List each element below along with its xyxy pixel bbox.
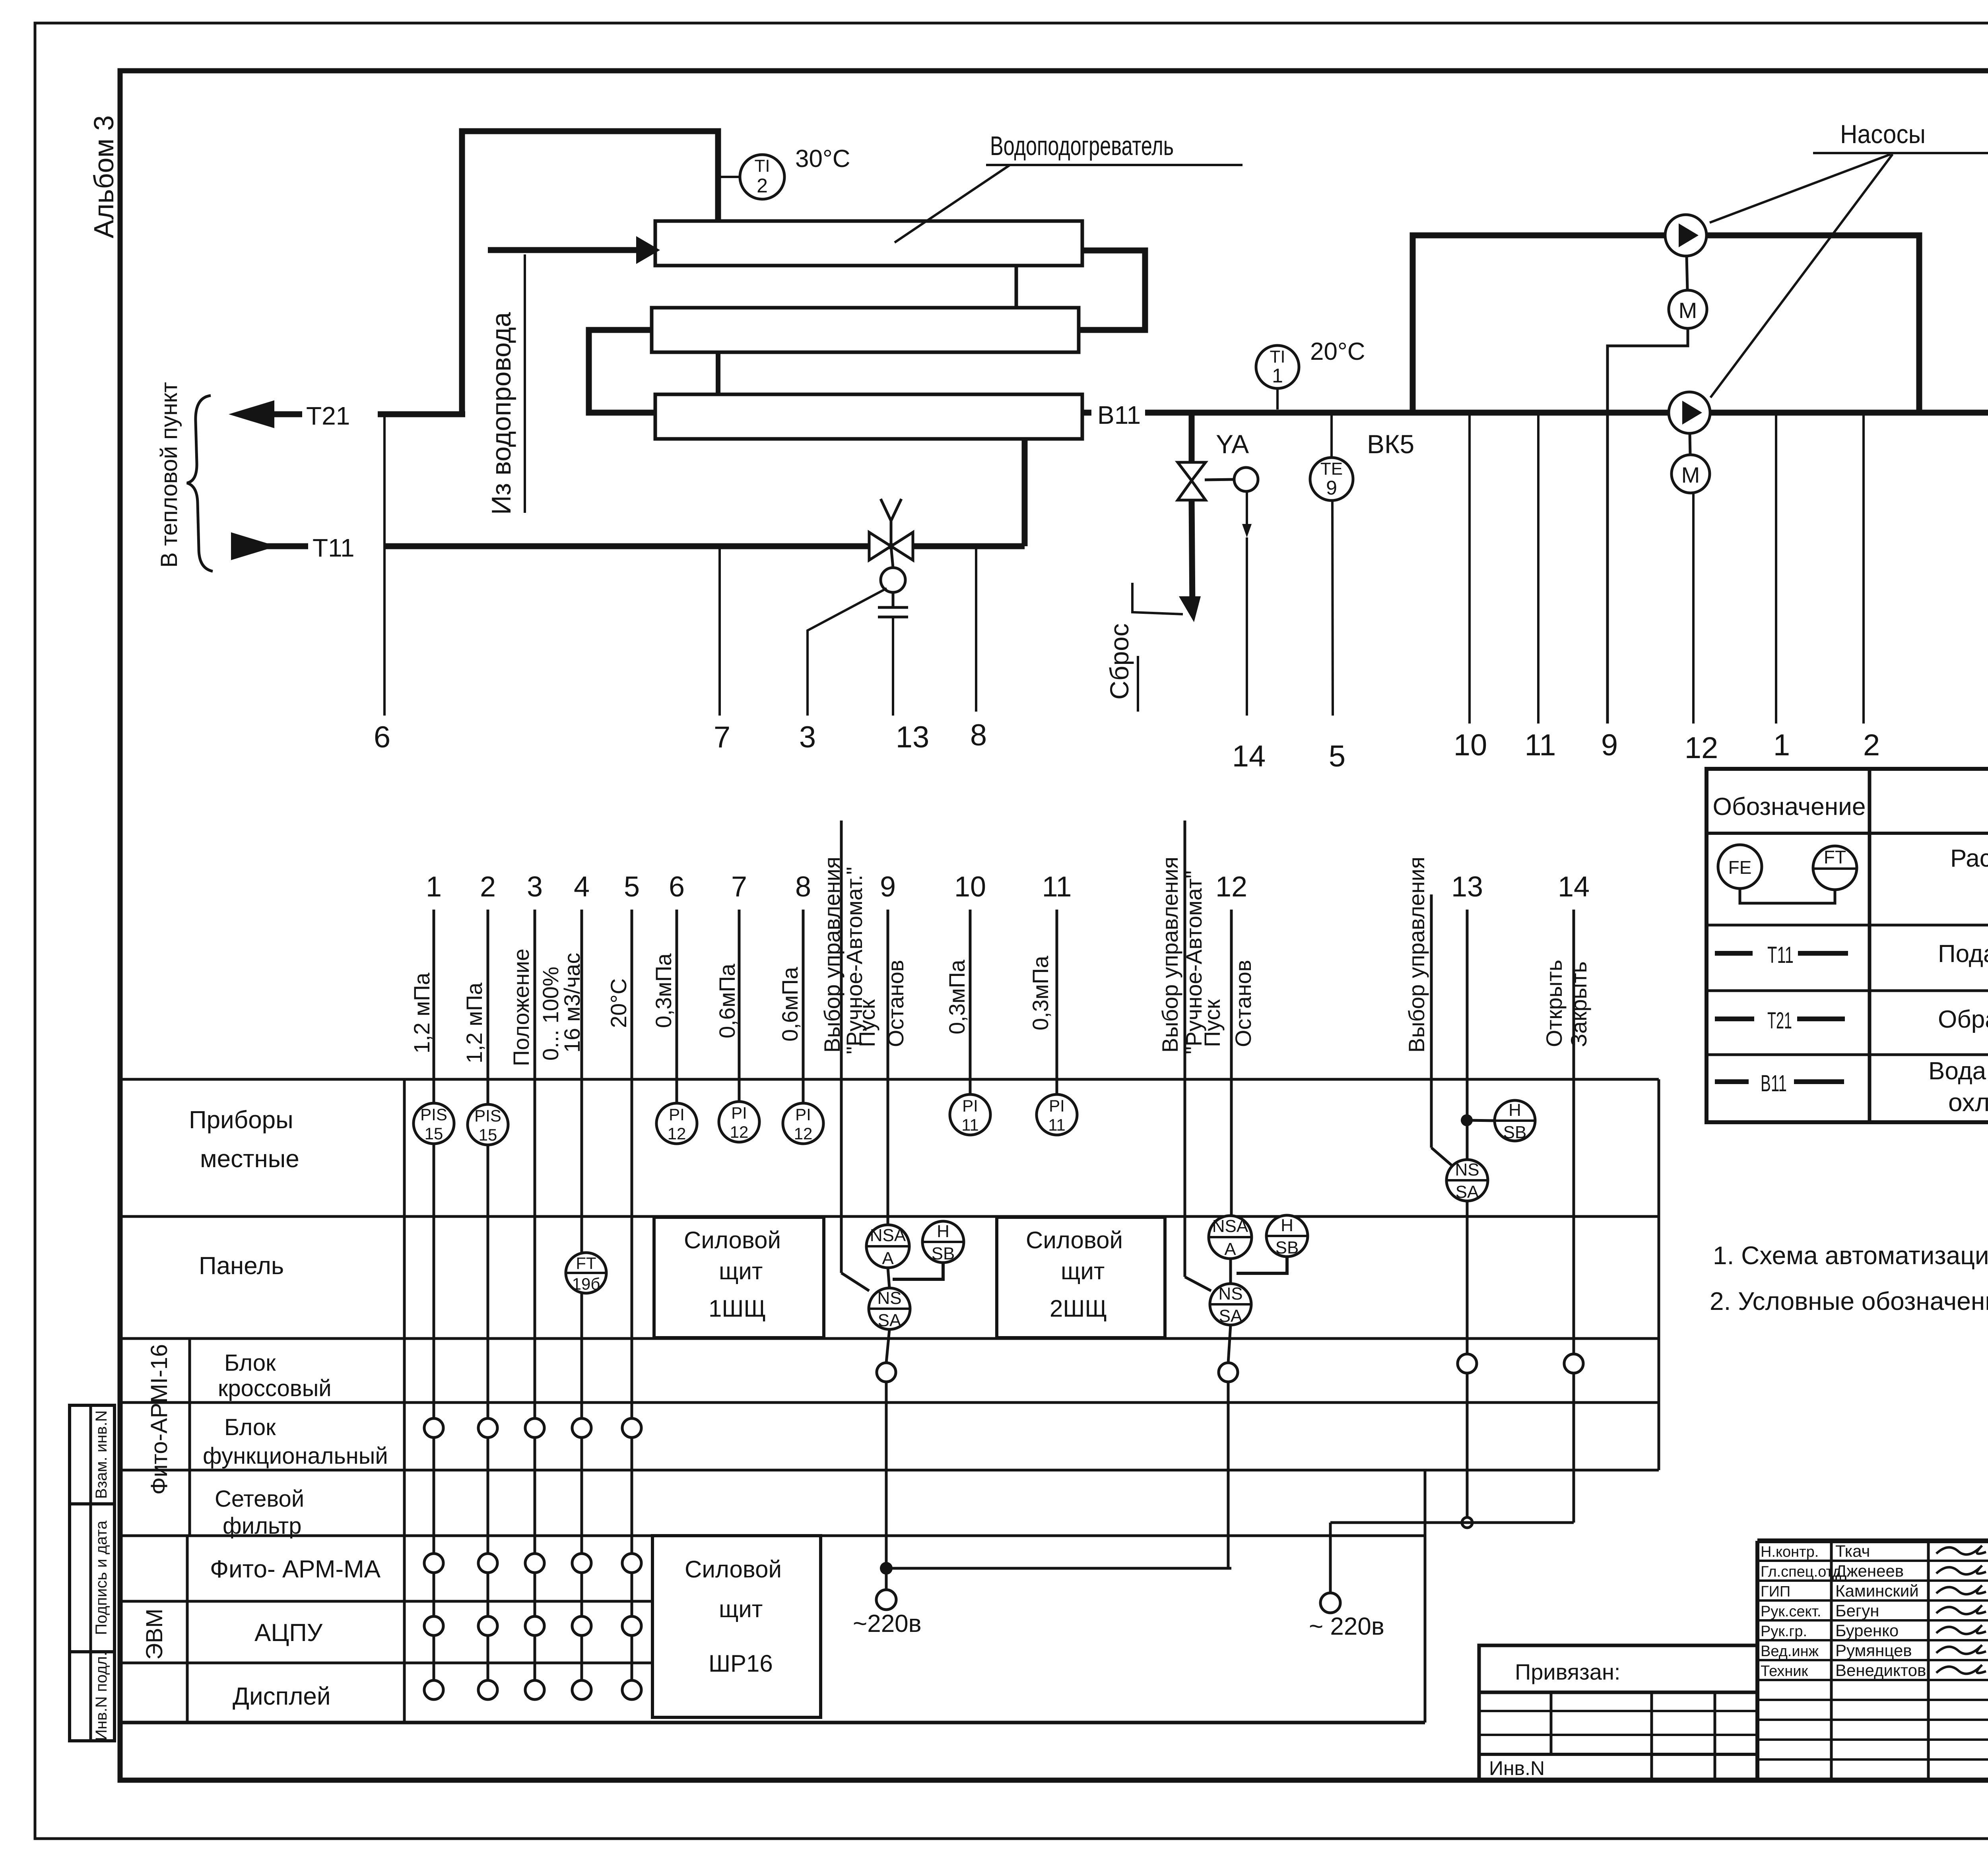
svg-text:T21: T21	[1767, 1008, 1792, 1034]
svg-text:Приборы: Приборы	[189, 1106, 293, 1134]
svg-text:SA: SA	[878, 1311, 901, 1330]
svg-text:12: 12	[1215, 871, 1247, 903]
svg-text:Пуск: Пуск	[854, 999, 879, 1047]
svg-text:Техник: Техник	[1761, 1663, 1808, 1680]
instrument FT 19b line4	[566, 1253, 606, 1293]
node T11 supply line	[231, 532, 277, 560]
svg-text:PI: PI	[795, 1105, 811, 1124]
drain pipe with arrow (Сброс)	[1192, 500, 1192, 607]
instrument PI 12 line7	[719, 1102, 759, 1142]
svg-text:местные: местные	[200, 1145, 299, 1173]
svg-text:Расходомер: Расходомер	[1950, 845, 1988, 872]
svg-text:0,3мПа: 0,3мПа	[944, 959, 969, 1034]
svg-text:PI: PI	[1049, 1096, 1065, 1115]
svg-text:14: 14	[1558, 871, 1590, 903]
heat exchanger shell 3	[655, 394, 1082, 439]
svg-text:NS: NS	[877, 1288, 901, 1308]
instrument table frame	[120, 1078, 1659, 1081]
label underline line12 group	[1184, 821, 1186, 1277]
svg-text:12: 12	[668, 1124, 686, 1143]
heat exchanger shell 2	[652, 308, 1079, 352]
svg-text:PIS: PIS	[420, 1105, 447, 1124]
svg-text:Буренко: Буренко	[1835, 1621, 1899, 1640]
svg-text:4: 4	[574, 871, 590, 903]
svg-text:NSA: NSA	[870, 1226, 906, 1245]
svg-text:13: 13	[896, 720, 930, 754]
H/SB circle 2SHCH	[1266, 1215, 1308, 1257]
svg-text:0,6мПа: 0,6мПа	[714, 963, 740, 1038]
NS/SA circle 2SHCH	[1210, 1284, 1251, 1325]
title block top line	[1757, 1538, 1988, 1543]
svg-text:FT: FT	[1824, 847, 1846, 867]
svg-text:фильтр: фильтр	[223, 1513, 301, 1539]
svg-text:0,3мПа: 0,3мПа	[651, 953, 676, 1028]
svg-text:Каминский: Каминский	[1835, 1581, 1919, 1600]
box Силовой щит 2ШЩ	[997, 1217, 1165, 1338]
instrument PI 12 line6	[656, 1103, 697, 1144]
svg-text:Подпись и дата: Подпись и дата	[93, 1520, 110, 1635]
NS/SA circle 1SHCH	[869, 1288, 910, 1329]
svg-text:FT: FT	[576, 1254, 596, 1273]
svg-text:Рук.гр.: Рук.гр.	[1761, 1623, 1807, 1640]
label Из водопровода	[524, 254, 526, 513]
solenoid valve YA	[1178, 462, 1206, 481]
svg-text:20°С: 20°С	[606, 978, 631, 1028]
svg-text:B11: B11	[1097, 401, 1141, 429]
label underline line13 group	[1430, 894, 1433, 1148]
svg-text:19б: 19б	[572, 1275, 600, 1293]
svg-text:~220в: ~220в	[853, 1610, 922, 1637]
svg-text:SB: SB	[932, 1244, 955, 1263]
svg-text:1. Схема автоматизации выпол: 1. Схема автоматизации выполнена на осно…	[1713, 1241, 1988, 1270]
valve on T11 with Y actuator	[869, 532, 891, 560]
box Силовой щит ШР16	[652, 1536, 821, 1717]
svg-text:15: 15	[479, 1125, 497, 1144]
svg-text:6: 6	[669, 871, 685, 903]
svg-text:A: A	[1224, 1240, 1236, 1259]
svg-text:Рук.сект.: Рук.сект.	[1761, 1603, 1821, 1620]
svg-text:Пуск: Пуск	[1200, 999, 1225, 1047]
svg-text:Взам. инв.N: Взам. инв.N	[93, 1410, 110, 1499]
box Силовой щит 1ШЩ	[654, 1217, 824, 1338]
capacitor symbol to tag 13	[892, 592, 895, 607]
svg-text:Положение: Положение	[509, 949, 534, 1066]
H/SB circle 1SHCH	[922, 1221, 964, 1263]
svg-text:TI: TI	[754, 156, 770, 176]
svg-text:1: 1	[1773, 728, 1790, 762]
svg-text:H: H	[937, 1222, 949, 1241]
svg-text:9: 9	[1601, 728, 1618, 762]
svg-text:Останов: Останов	[883, 960, 908, 1047]
svg-text:Румянцев: Румянцев	[1835, 1641, 1912, 1660]
instrument TI 1	[1256, 345, 1299, 388]
svg-text:0,3мПа: 0,3мПа	[1028, 955, 1053, 1030]
svg-text:Бегун: Бегун	[1835, 1601, 1879, 1620]
svg-text:SB: SB	[1276, 1238, 1299, 1257]
svg-text:Силовой: Силовой	[1026, 1227, 1123, 1253]
instrument PIS 15 line2	[468, 1104, 508, 1145]
svg-text:0,6мПа: 0,6мПа	[777, 966, 802, 1042]
pipe: T21 riser and top run	[462, 131, 718, 414]
signal lines	[433, 910, 435, 1103]
legend T11	[1715, 951, 1753, 956]
instrument PI 12 line8	[783, 1103, 823, 1144]
svg-text:H: H	[1281, 1216, 1293, 1235]
wire B11 to YA valve	[1189, 413, 1195, 461]
svg-text:Альбом 3: Альбом 3	[88, 115, 119, 239]
svg-text:Фито- АРМ-МА: Фито- АРМ-МА	[210, 1556, 381, 1583]
svg-text:12: 12	[794, 1124, 813, 1143]
svg-text:11: 11	[1048, 1115, 1066, 1134]
instrument PIS 15 line1	[414, 1103, 454, 1144]
svg-text:SA: SA	[1219, 1306, 1242, 1326]
svg-text:щит: щит	[1061, 1258, 1105, 1284]
motor M2	[1672, 455, 1710, 493]
svg-text:3: 3	[799, 720, 816, 754]
svg-text:20°C: 20°C	[1310, 338, 1365, 365]
signatures table	[1755, 1541, 1759, 1780]
wire to tag 6	[383, 414, 386, 716]
svg-text:A: A	[882, 1249, 894, 1268]
svg-text:10: 10	[1454, 728, 1487, 762]
legend FE-FT symbol	[1718, 845, 1762, 888]
svg-text:14: 14	[1232, 739, 1266, 773]
svg-text:PIS: PIS	[474, 1106, 501, 1125]
svg-text:15: 15	[425, 1124, 443, 1143]
svg-text:функциональный: функциональный	[203, 1443, 388, 1469]
svg-text:2: 2	[480, 871, 496, 903]
svg-text:Фито-АРМI-16: Фито-АРМI-16	[146, 1344, 172, 1495]
node T21 return line	[270, 411, 302, 417]
svg-text:щит: щит	[719, 1596, 763, 1622]
label Сброс	[1132, 583, 1183, 614]
svg-text:T21: T21	[306, 402, 350, 430]
table column divider	[403, 1079, 406, 1723]
svg-text:1ШЩ: 1ШЩ	[709, 1295, 766, 1322]
signal line 13 chain	[1466, 910, 1469, 1160]
svg-text:~ 220в: ~ 220в	[1309, 1613, 1384, 1640]
svg-text:9: 9	[1326, 477, 1337, 499]
svg-text:H: H	[1508, 1100, 1521, 1120]
svg-text:Выбор управления: Выбор управления	[1157, 857, 1182, 1053]
svg-text:T11: T11	[1767, 942, 1794, 968]
Privyazan box	[1479, 1645, 1757, 1780]
svg-text:Инв.N подл.: Инв.N подл.	[93, 1652, 110, 1741]
svg-text:Из водопровода: Из водопровода	[486, 312, 516, 515]
svg-text:АЦПУ: АЦПУ	[254, 1619, 323, 1647]
svg-text:5: 5	[1329, 739, 1345, 773]
svg-text:12: 12	[730, 1123, 749, 1141]
svg-text:Дисплей: Дисплей	[233, 1683, 331, 1710]
legend T21	[1715, 1017, 1754, 1021]
motor M1	[1669, 290, 1707, 328]
svg-text:NSA: NSA	[1212, 1216, 1248, 1236]
signal line 12 chain	[1230, 910, 1233, 1216]
svg-text:PI: PI	[731, 1104, 747, 1122]
svg-text:2. Условные обозначения прин: 2. Условные обозначения приняты по ГОСТ …	[1710, 1287, 1988, 1315]
svg-text:9: 9	[880, 871, 896, 903]
svg-text:TE: TE	[1320, 459, 1343, 479]
svg-text:Дженеев: Дженеев	[1835, 1562, 1904, 1580]
pump bypass loop	[1413, 235, 1666, 413]
svg-text:M: M	[1679, 298, 1697, 323]
wire to tag 11	[1537, 413, 1540, 724]
wire to tag 2	[1862, 413, 1865, 724]
svg-text:Вода для: Вода для	[1928, 1057, 1988, 1085]
wire to tag 7	[718, 546, 721, 716]
svg-text:кроссовый: кроссовый	[218, 1375, 332, 1401]
svg-text:ЭВМ: ЭВМ	[142, 1608, 167, 1660]
wire: shell2-shell3 connector left	[589, 330, 655, 413]
wire: shell1-shell2 connector right	[1079, 250, 1145, 330]
heat exchanger shell 1	[655, 221, 1082, 266]
svg-text:30°C: 30°C	[795, 145, 850, 173]
svg-text:16 м3/час: 16 м3/час	[559, 953, 584, 1053]
wire to tag 8	[975, 546, 977, 712]
pump P2 on B11	[1669, 392, 1710, 433]
svg-text:Водоподогреватель: Водоподогреватель	[990, 131, 1174, 161]
svg-text:Н.контр.: Н.контр.	[1761, 1544, 1819, 1560]
svg-text:2: 2	[757, 175, 768, 197]
svg-text:Венедиктов: Венедиктов	[1835, 1661, 1926, 1680]
svg-text:8: 8	[970, 718, 987, 752]
svg-text:охлаждения: охлаждения	[1948, 1088, 1988, 1117]
svg-text:11: 11	[961, 1115, 979, 1134]
svg-text:Обозначение: Обозначение	[1713, 793, 1866, 821]
svg-text:7: 7	[714, 720, 730, 754]
svg-text:Сброс: Сброс	[1105, 623, 1134, 700]
wire: T11 riser to shell3	[1022, 437, 1028, 546]
svg-text:PI: PI	[669, 1105, 685, 1124]
svg-text:Останов: Останов	[1231, 960, 1256, 1047]
svg-text:Ткач: Ткач	[1835, 1542, 1870, 1560]
svg-text:YA: YA	[1216, 429, 1249, 459]
left margin boxes	[70, 1405, 115, 1741]
svg-text:Выбор управления: Выбор управления	[1404, 857, 1429, 1053]
svg-text:В тепловой пункт: В тепловой пункт	[156, 382, 182, 568]
svg-text:2: 2	[1863, 728, 1880, 762]
instrument TI 2	[718, 176, 740, 178]
svg-text:ШР16: ШР16	[709, 1650, 773, 1677]
svg-text:Закрыть: Закрыть	[1566, 961, 1591, 1047]
svg-text:T11: T11	[313, 533, 355, 562]
wire: shell1 bottom to shell2 top thin	[1015, 266, 1018, 308]
pump P1	[1665, 215, 1706, 256]
NS/SA circle line13	[1446, 1160, 1488, 1201]
wire to tag 1	[1775, 413, 1777, 724]
svg-text:7: 7	[731, 871, 747, 903]
legend table	[1706, 769, 1988, 1122]
table right edge upper	[1658, 1079, 1660, 1470]
signal line 9 chain	[887, 910, 889, 1225]
svg-text:NS: NS	[1218, 1284, 1242, 1304]
svg-text:Открыть: Открыть	[1541, 960, 1567, 1047]
svg-text:11: 11	[1525, 728, 1556, 762]
svg-text:3: 3	[527, 871, 543, 903]
svg-text:Подающий: Подающий	[1938, 940, 1988, 968]
svg-text:щит: щит	[719, 1258, 763, 1284]
legend B11	[1715, 1079, 1749, 1084]
wire 220V node2	[1330, 1521, 1574, 1524]
svg-text:Вед.инж: Вед.инж	[1761, 1643, 1819, 1660]
svg-text:M: M	[1681, 462, 1700, 487]
svg-text:8: 8	[795, 871, 811, 903]
wire to tag 3	[808, 588, 887, 716]
svg-text:TI: TI	[1270, 347, 1285, 367]
NSA/A circle 1SHCH	[866, 1225, 909, 1268]
curly brace	[187, 396, 213, 571]
signal line 14 chain	[1573, 910, 1575, 1354]
svg-text:11: 11	[1042, 871, 1072, 903]
svg-text:Панель: Панель	[199, 1252, 284, 1280]
svg-text:ВК5: ВК5	[1367, 429, 1414, 459]
svg-text:Блок: Блок	[224, 1414, 276, 1440]
svg-text:SA: SA	[1456, 1182, 1479, 1202]
svg-text:Насосы: Насосы	[1840, 119, 1926, 149]
svg-text:1: 1	[426, 871, 442, 903]
svg-text:1,2 мПа: 1,2 мПа	[409, 972, 434, 1053]
svg-text:B11: B11	[1761, 1071, 1787, 1096]
svg-text:5: 5	[624, 871, 640, 903]
valve positioner circle	[881, 568, 905, 592]
label underline line9 group	[840, 821, 843, 1273]
svg-text:Инв.N: Инв.N	[1489, 1757, 1545, 1779]
svg-text:NS: NS	[1455, 1160, 1479, 1179]
svg-text:Силовой: Силовой	[684, 1227, 781, 1253]
svg-text:PI: PI	[962, 1096, 978, 1115]
svg-text:Привязан:: Привязан:	[1515, 1659, 1620, 1684]
wire to tag 12	[1692, 493, 1695, 724]
svg-text:1,2 мПа: 1,2 мПа	[462, 982, 487, 1063]
svg-text:ГИП: ГИП	[1761, 1583, 1790, 1600]
table right edge lower	[1424, 1470, 1427, 1723]
instrument TE 9	[1310, 458, 1353, 500]
svg-text:10: 10	[954, 871, 986, 903]
sub column fito label	[188, 1339, 191, 1536]
svg-text:Блок: Блок	[224, 1350, 276, 1376]
instrument PI 11 line11	[1037, 1094, 1077, 1135]
node B11 main line	[1082, 410, 1091, 416]
wire: shell2 bottom to shell3 top	[716, 352, 720, 394]
svg-text:13: 13	[1451, 871, 1483, 903]
svg-text:1: 1	[1272, 365, 1283, 387]
wire M1 drain to tag 9	[1607, 328, 1688, 724]
svg-text:Сетевой: Сетевой	[215, 1486, 304, 1512]
svg-text:2ШЩ: 2ШЩ	[1050, 1295, 1107, 1322]
svg-text:12: 12	[1685, 731, 1718, 765]
instrument PI 11 line10	[950, 1094, 990, 1135]
svg-text:Гл.спец.отд: Гл.спец.отд	[1761, 1564, 1841, 1580]
NSA/A circle 2SHCH	[1209, 1216, 1252, 1259]
svg-text:Обратный: Обратный	[1938, 1006, 1988, 1033]
svg-text:Силовой: Силовой	[685, 1556, 782, 1583]
svg-text:6: 6	[374, 720, 390, 754]
wire to tag 10	[1468, 413, 1471, 724]
svg-text:FE: FE	[1728, 857, 1752, 878]
H/SB circle line13	[1495, 1100, 1535, 1141]
svg-text:SB: SB	[1503, 1123, 1527, 1142]
inlet arrow from water supply	[488, 247, 636, 253]
